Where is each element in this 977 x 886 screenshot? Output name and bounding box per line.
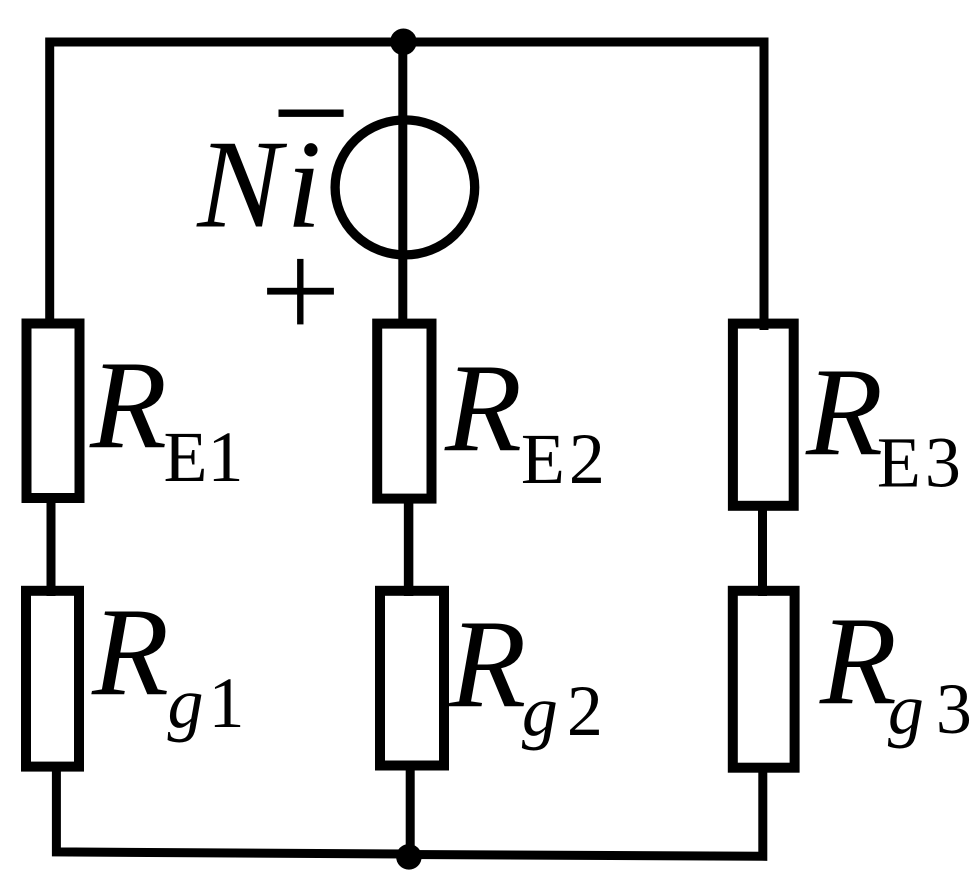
svg-text:R: R	[444, 340, 522, 479]
svg-text:R: R	[819, 593, 897, 732]
svg-text:R: R	[89, 337, 167, 476]
svg-text:E2: E2	[521, 419, 605, 499]
resistor RE2 (box)	[377, 324, 431, 499]
wire center drop to bottom rail	[406, 764, 415, 856]
svg-text:g1: g1	[168, 663, 245, 743]
node A (top junction dot)	[390, 29, 417, 56]
svg-text:E3: E3	[877, 422, 961, 502]
svg-text:E1: E1	[164, 417, 244, 497]
mmf source Ni (circle)	[335, 120, 475, 255]
resistor Rg3 (box)	[733, 591, 795, 768]
node B (bottom junction dot)	[396, 844, 422, 870]
wire between RE3 and Rg3	[758, 504, 767, 596]
wire bottom right corner	[408, 766, 763, 856]
resistor Rg1 (box)	[26, 591, 79, 767]
svg-text:R: R	[91, 583, 169, 722]
wire top rail with left and right drops	[50, 42, 764, 330]
wire center drop from top node through source	[398, 42, 407, 326]
resistor RE3 (box)	[733, 324, 794, 506]
wire between RE2 and Rg2	[404, 497, 414, 596]
svg-text:Ni: Ni	[196, 116, 321, 255]
resistor Rg2 (box)	[380, 591, 444, 766]
svg-text:R: R	[805, 344, 883, 483]
resistor RE1 (box)	[27, 324, 80, 499]
svg-text:g3: g3	[888, 669, 972, 749]
minus polarity mark	[279, 110, 344, 117]
svg-text:g2: g2	[522, 671, 603, 751]
wire between RE1 and Rg1	[47, 497, 56, 596]
plus polarity mark	[267, 288, 334, 295]
svg-text:R: R	[448, 595, 526, 734]
wire bottom left corner	[56, 765, 410, 854]
